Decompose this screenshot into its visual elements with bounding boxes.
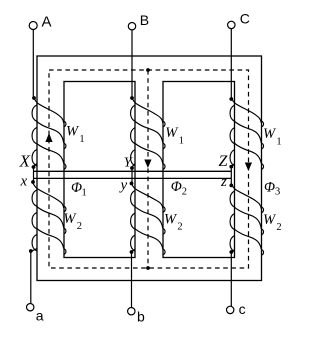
svg-text:y: y xyxy=(119,178,128,194)
node bottom of W2-c xyxy=(229,250,233,254)
svg-text:Z: Z xyxy=(219,153,229,170)
svg-text:2: 2 xyxy=(182,187,187,198)
transformer core outer edge xyxy=(37,56,262,281)
terminal b xyxy=(128,308,135,315)
svg-text:W: W xyxy=(165,125,179,141)
svg-text:1: 1 xyxy=(82,188,87,199)
terminal B xyxy=(128,23,135,30)
node bottom of W2-a xyxy=(29,249,33,253)
winding W2 phase a xyxy=(31,183,66,255)
svg-text:W: W xyxy=(63,211,77,227)
stub node Y to y xyxy=(131,168,133,183)
node Y xyxy=(130,166,134,170)
svg-text:2: 2 xyxy=(77,221,82,232)
flux path middle dashed line xyxy=(147,70,149,268)
svg-text:A: A xyxy=(42,14,52,31)
wire to terminal b xyxy=(131,252,133,308)
node bottom of W2-b xyxy=(130,250,134,254)
winding W1 phase A xyxy=(32,98,66,170)
svg-text:W: W xyxy=(263,212,277,228)
svg-text:Φ: Φ xyxy=(264,179,275,195)
node top of W1-A xyxy=(32,96,36,100)
flux junction top xyxy=(146,68,150,72)
svg-text:X: X xyxy=(19,152,31,171)
wire from terminal A xyxy=(32,30,34,99)
svg-text:2: 2 xyxy=(276,222,281,233)
wire from terminal C xyxy=(230,29,232,98)
node top of W1-C xyxy=(229,97,233,101)
flux path dashed loop xyxy=(49,70,249,268)
svg-text:1: 1 xyxy=(276,137,281,148)
core right window xyxy=(163,82,235,258)
svg-text:W: W xyxy=(164,212,178,228)
wire from terminal B xyxy=(131,30,133,98)
svg-text:2: 2 xyxy=(177,222,182,233)
svg-text:C: C xyxy=(240,10,250,26)
svg-text:x: x xyxy=(20,174,28,190)
node Z xyxy=(229,165,233,169)
svg-text:B: B xyxy=(140,12,149,28)
stub node Z to z xyxy=(230,167,232,186)
flux arrow phi2 down xyxy=(144,160,151,169)
flux arrow phi1 up xyxy=(45,133,52,142)
svg-text:a: a xyxy=(36,307,44,323)
terminal C xyxy=(228,21,235,28)
svg-text:1: 1 xyxy=(79,134,84,145)
flux junction bottom xyxy=(146,266,150,270)
svg-text:z: z xyxy=(220,174,227,190)
stub node X to x xyxy=(33,167,35,182)
winding W1 phase B xyxy=(131,98,166,170)
svg-text:b: b xyxy=(137,308,145,324)
winding W1 phase C xyxy=(230,98,263,170)
flux arrow phi3 down xyxy=(245,163,252,172)
wire rail x-y-z xyxy=(33,177,231,179)
core left window xyxy=(64,82,135,258)
node X xyxy=(32,165,36,169)
wire to terminal a xyxy=(30,251,32,304)
terminal a xyxy=(27,304,34,311)
terminal c xyxy=(227,306,234,313)
svg-text:c: c xyxy=(239,301,246,317)
terminal A xyxy=(29,22,37,30)
svg-text:Φ: Φ xyxy=(171,179,182,195)
winding W2 phase b xyxy=(131,183,166,255)
svg-text:W: W xyxy=(263,126,277,142)
node x xyxy=(31,180,35,184)
svg-text:W: W xyxy=(66,123,80,139)
wire rail X-Y-Z xyxy=(34,170,231,172)
winding W2 phase c xyxy=(230,184,263,256)
node z xyxy=(229,184,233,188)
svg-text:1: 1 xyxy=(179,136,184,147)
svg-text:Φ: Φ xyxy=(71,180,82,196)
svg-text:3: 3 xyxy=(275,187,280,198)
node y xyxy=(130,182,134,186)
wire to terminal c xyxy=(230,252,232,306)
node top of W1-B xyxy=(130,96,134,100)
